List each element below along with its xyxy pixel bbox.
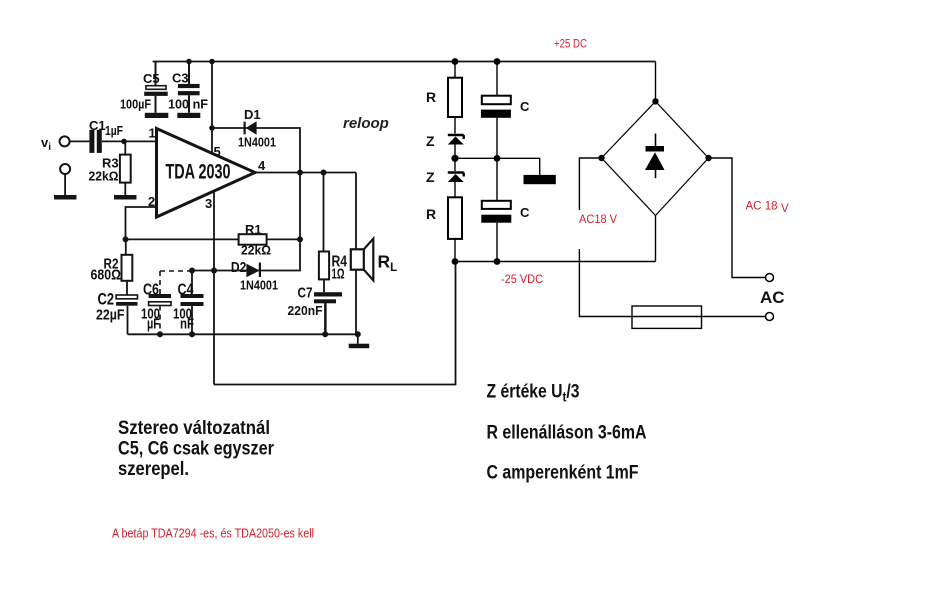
svg-text:22kΩ: 22kΩ [241, 243, 271, 258]
speaker RL [351, 249, 364, 269]
svg-text:Sztereo változatnál: Sztereo változatnál [118, 418, 270, 439]
wire pin2 [126, 207, 157, 239]
svg-text:22µF: 22µF [96, 308, 125, 324]
svg-text:2: 2 [148, 194, 155, 209]
svg-text:C1: C1 [89, 118, 106, 133]
wire bridge bottom lead [655, 216, 657, 262]
zener Z2 [448, 173, 464, 177]
svg-text:C4: C4 [178, 282, 194, 299]
ground bottom center [349, 344, 370, 349]
svg-text:4: 4 [258, 158, 266, 173]
wire Z/R chain vertical [454, 62, 456, 262]
svg-text:µF: µF [147, 316, 160, 333]
resistor R1 [239, 234, 267, 245]
wire bridge top lead [655, 62, 657, 102]
terminal AC lower [766, 313, 774, 321]
svg-text:C3: C3 [172, 71, 189, 86]
capacitor C5 [146, 86, 166, 90]
svg-text:R: R [426, 89, 436, 105]
junction dots amp section [121, 59, 361, 338]
svg-text:R1: R1 [245, 222, 262, 237]
zener Z1 [448, 135, 464, 139]
svg-text:1N4001: 1N4001 [240, 278, 278, 293]
ground under lower terminal [54, 195, 77, 200]
capacitor C1 [89, 130, 94, 153]
wire R3 leads [124, 141, 126, 195]
svg-text:RL: RL [378, 252, 398, 275]
capacitor C6 dashed optional [160, 271, 192, 334]
wire R2-C2 chain [126, 239, 128, 334]
svg-text:+25 DC: +25 DC [554, 39, 587, 51]
svg-text:A betáp TDA7294 -es, és TDA205: A betáp TDA7294 -es, és TDA2050-es kell [112, 527, 314, 541]
op-amp U1 TDA 2030 triangle [157, 129, 256, 218]
wire D2 line [192, 239, 300, 270]
wire R1 feedback line [126, 238, 301, 240]
bridge rectifier B1 diamond [602, 101, 709, 215]
wire top +V rail [153, 61, 656, 63]
wire R4 drop [324, 173, 326, 335]
svg-text:C6: C6 [143, 282, 159, 299]
wire C4 leads [191, 271, 193, 335]
resistor R4 [319, 252, 329, 280]
wire pin5 vertical [211, 62, 213, 154]
chassis ground black box [524, 175, 556, 184]
wire C3 lead [188, 62, 190, 113]
svg-text:C5: C5 [143, 71, 160, 86]
svg-text:1µF: 1µF [105, 123, 123, 138]
wire pin3 vertical [213, 191, 215, 384]
junction dots PSU [451, 58, 711, 265]
wire bottom loop [214, 262, 456, 385]
svg-text:R: R [426, 206, 436, 222]
svg-text:100µF: 100µF [120, 97, 151, 112]
svg-text:C amperenként 1mF: C amperenként 1mF [487, 463, 639, 484]
resistor R bottom [448, 197, 462, 239]
diode D1 [246, 121, 257, 134]
wire speaker drop [355, 173, 357, 250]
svg-text:-25 VDC: -25 VDC [501, 274, 543, 286]
svg-text:C2: C2 [98, 290, 115, 309]
wire mid tap line [455, 158, 540, 175]
svg-text:TDA 2030: TDA 2030 [166, 161, 231, 184]
wire speaker bottom [356, 270, 358, 344]
wire D1 line [212, 128, 300, 173]
wire output line pin4 [255, 172, 356, 174]
wire AC right [709, 158, 766, 278]
svg-text:R ellenálláson 3-6mA: R ellenálláson 3-6mA [487, 423, 647, 444]
wire bottom ground rail [128, 333, 358, 335]
svg-text:nF: nF [180, 316, 194, 333]
terminal AC upper [766, 274, 774, 282]
svg-text:reloop: reloop [343, 115, 389, 132]
resistor R top [448, 78, 462, 117]
terminal input lower circle [60, 164, 70, 174]
svg-text:D2: D2 [231, 260, 247, 276]
wire C5 leads [155, 62, 157, 113]
svg-text:C: C [520, 205, 530, 220]
svg-text:C: C [520, 99, 530, 114]
wire -25 rail [455, 261, 656, 263]
wire C7 bottom lead [325, 303, 327, 333]
svg-text:V: V [781, 203, 789, 215]
capacitor C bottom (PSU) [482, 201, 511, 209]
terminal Vi input circle [60, 136, 70, 146]
svg-text:Z: Z [426, 133, 435, 149]
fuse F1 [632, 306, 702, 328]
wire C chain vertical [496, 62, 498, 262]
svg-text:vi: vi [41, 135, 51, 153]
capacitor C3 [178, 84, 200, 88]
svg-text:D1: D1 [244, 107, 261, 122]
wire fuse right [702, 316, 766, 318]
svg-text:22kΩ: 22kΩ [89, 169, 119, 184]
wire lower terminal lead [64, 175, 66, 195]
svg-text:AC: AC [760, 288, 785, 307]
svg-text:100 nF: 100 nF [168, 97, 208, 112]
capacitor C2 [116, 295, 137, 299]
svg-text:Z: Z [426, 169, 435, 185]
svg-text:Z értéke Ut/3: Z értéke Ut/3 [487, 382, 580, 405]
svg-text:C5, C6 csak egyszer: C5, C6 csak egyszer [118, 439, 275, 460]
svg-text:1Ω: 1Ω [332, 267, 345, 283]
ground under R3 [114, 195, 137, 200]
svg-text:C7: C7 [298, 285, 313, 302]
capacitor C top (PSU) [482, 96, 511, 105]
wire AC left [579, 158, 632, 317]
capacitor C7 [314, 292, 342, 296]
svg-text:AC18 V: AC18 V [579, 214, 617, 226]
svg-text:AC 18: AC 18 [746, 201, 778, 213]
wire output node vertical [299, 173, 301, 240]
svg-text:3: 3 [205, 196, 212, 211]
bridge internal diode [655, 134, 657, 147]
svg-text:1: 1 [149, 126, 156, 141]
svg-text:220nF: 220nF [288, 303, 323, 318]
svg-text:5: 5 [214, 144, 221, 159]
diode D2 [246, 264, 259, 277]
svg-text:1N4001: 1N4001 [238, 135, 276, 150]
wire input [70, 140, 156, 142]
capacitor C4 [181, 294, 204, 298]
resistor R2 [122, 255, 133, 281]
wire fuse through [632, 316, 702, 318]
svg-text:680Ω: 680Ω [91, 268, 122, 284]
resistor R3 [120, 155, 131, 183]
svg-text:szerepel.: szerepel. [118, 459, 189, 480]
